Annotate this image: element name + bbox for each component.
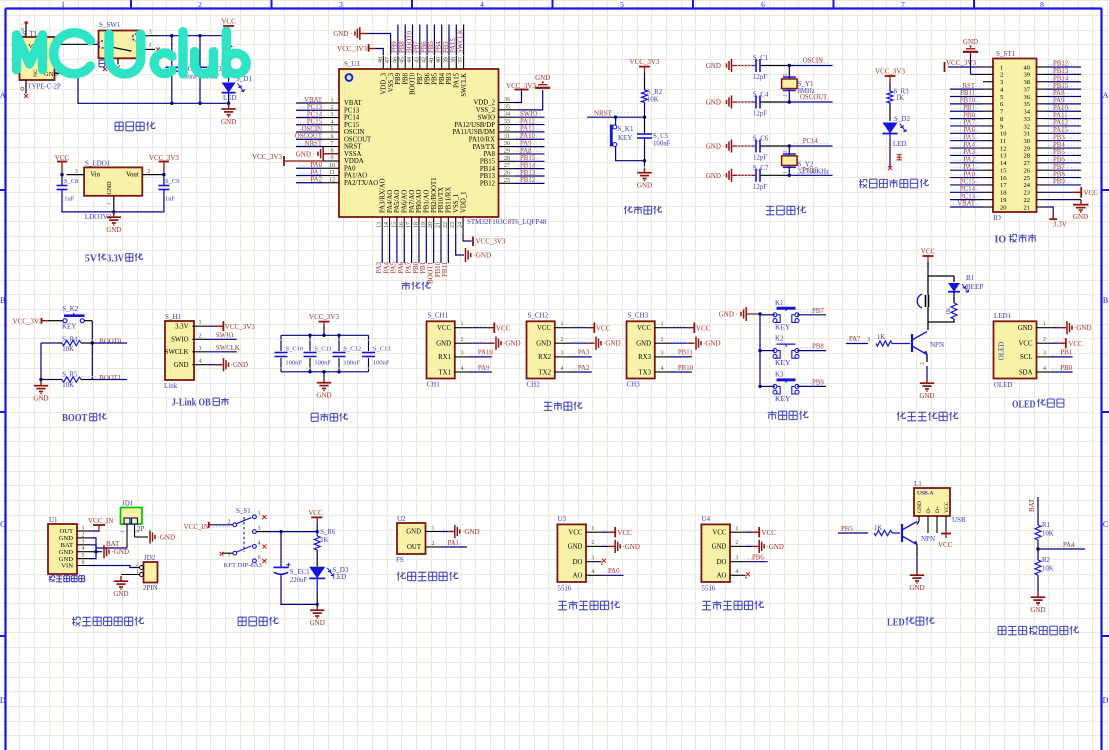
svg-text:PB7: PB7 (414, 41, 421, 53)
svg-text:AO: AO (573, 573, 583, 580)
svg-text:1K: 1K (946, 307, 952, 315)
svg-text:100nF: 100nF (653, 141, 671, 148)
svg-text:S_LDO1: S_LDO1 (85, 160, 111, 168)
svg-text:2: 2 (331, 105, 334, 111)
svg-text:GND: GND (406, 529, 421, 536)
svg-text:5: 5 (331, 127, 334, 133)
svg-text:PB11: PB11 (442, 262, 449, 277)
svg-text:8: 8 (1000, 116, 1003, 123)
svg-text:LED: LED (887, 617, 905, 629)
svg-text:D+: D+ (935, 506, 941, 513)
svg-text:VCC_3V3: VCC_3V3 (225, 323, 255, 331)
svg-text:13: 13 (1000, 153, 1007, 160)
svg-text:PA2/TX/AO: PA2/TX/AO (344, 180, 378, 187)
svg-text:0: 0 (21, 27, 24, 33)
svg-text:PA7: PA7 (405, 261, 412, 273)
svg-text:PB0: PB0 (1060, 365, 1072, 372)
svg-text:40: 40 (1024, 64, 1031, 71)
svg-text:16: 16 (1000, 175, 1007, 182)
svg-text:VDD_3: VDD_3 (381, 72, 388, 94)
svg-text:10K: 10K (62, 346, 74, 353)
svg-text:R1: R1 (1042, 522, 1050, 529)
svg-text:AO: AO (717, 573, 727, 580)
svg-text:2: 2 (1043, 337, 1046, 343)
svg-text:1K: 1K (877, 334, 885, 341)
svg-text:KEY: KEY (618, 134, 632, 142)
svg-text:48: 48 (378, 57, 384, 63)
svg-text:4: 4 (258, 541, 261, 547)
svg-text:S_D2: S_D2 (894, 115, 910, 123)
svg-text:3: 3 (1000, 79, 1003, 86)
svg-text:2: 2 (198, 0, 202, 9)
svg-text:2: 2 (461, 337, 464, 343)
svg-text:OSCIN: OSCIN (803, 58, 823, 65)
svg-text:2: 2 (135, 530, 141, 533)
svg-text:S_C12: S_C12 (343, 346, 361, 353)
svg-text:SDA: SDA (1019, 369, 1033, 376)
svg-text:PA10/RX: PA10/RX (469, 136, 495, 143)
svg-text:PA3: PA3 (578, 350, 590, 357)
svg-text:2: 2 (199, 333, 202, 339)
svg-text:VCC: VCC (308, 509, 323, 517)
svg-text:32.768KHz: 32.768KHz (798, 168, 830, 175)
svg-text:PA0: PA0 (608, 568, 620, 575)
svg-text:35: 35 (504, 104, 510, 110)
svg-text:PB13: PB13 (480, 173, 496, 180)
svg-text:6: 6 (258, 555, 261, 561)
svg-text:1: 1 (1000, 64, 1003, 71)
svg-text:·GND: ·GND (231, 361, 249, 369)
svg-text:IO: IO (995, 234, 1007, 246)
svg-text:BAT: BAT (106, 540, 120, 548)
svg-text:VCC: VCC (437, 325, 451, 332)
svg-text:PB4: PB4 (436, 41, 443, 53)
svg-text:VCC: VCC (1084, 189, 1099, 197)
svg-text:VCC: VCC (596, 324, 611, 332)
svg-text:OSCIN: OSCIN (302, 126, 322, 133)
svg-text:24: 24 (458, 222, 464, 228)
svg-text:VCC: VCC (938, 541, 953, 549)
svg-text:PC14: PC14 (344, 115, 360, 122)
svg-text:12pF: 12pF (753, 74, 767, 81)
svg-text:S_C9: S_C9 (165, 178, 179, 185)
svg-text:R2: R2 (1042, 557, 1051, 564)
svg-text:3.3V: 3.3V (175, 324, 188, 331)
svg-text:2: 2 (591, 540, 594, 546)
svg-text:1: 1 (107, 202, 113, 205)
svg-text:100nF: 100nF (285, 359, 302, 366)
svg-text:VCC: VCC (712, 529, 726, 536)
svg-text:1: 1 (591, 526, 594, 532)
svg-text:1: 1 (149, 43, 152, 49)
svg-text:S_CH1: S_CH1 (428, 312, 449, 320)
svg-text:KEY: KEY (775, 322, 791, 331)
svg-text:40: 40 (436, 57, 442, 63)
svg-text:3: 3 (1043, 351, 1046, 357)
svg-text:S_SW1: S_SW1 (99, 21, 121, 29)
svg-text:2: 2 (147, 169, 150, 175)
svg-text:3: 3 (75, 169, 78, 175)
svg-text:28: 28 (504, 156, 510, 162)
svg-text:12pF: 12pF (753, 184, 767, 191)
svg-text:31: 31 (1024, 131, 1031, 138)
svg-text:1: 1 (432, 525, 435, 531)
svg-text:PB11: PB11 (678, 350, 693, 357)
svg-text:S_K1: S_K1 (618, 125, 634, 133)
svg-text:A: A (1103, 91, 1109, 100)
svg-text:7: 7 (901, 0, 905, 9)
svg-text:2PIN: 2PIN (143, 584, 158, 592)
svg-text:BOOT: BOOT (62, 412, 88, 424)
svg-text:PA11/USB/DM: PA11/USB/DM (452, 129, 495, 136)
svg-text:VCC: VCC (637, 325, 651, 332)
svg-text:C: C (0, 520, 5, 529)
svg-text:VCC: VCC (761, 529, 776, 537)
svg-text:J-Link OB: J-Link OB (172, 397, 211, 409)
svg-text:TX1: TX1 (439, 369, 451, 376)
svg-text:B: B (1103, 296, 1108, 305)
svg-text:GND ·: GND · (296, 150, 315, 158)
svg-text:29: 29 (1024, 145, 1031, 152)
svg-text:RX1: RX1 (438, 354, 451, 361)
svg-text:12pF: 12pF (753, 155, 767, 162)
svg-text:10K: 10K (1042, 566, 1054, 573)
svg-text:PB10/TX: PB10/TX (438, 187, 445, 213)
svg-text:43: 43 (414, 57, 420, 63)
svg-text:GND: GND (1073, 213, 1088, 221)
svg-text:1: 1 (661, 322, 664, 328)
svg-text:GND: GND (107, 181, 113, 195)
svg-text:3: 3 (461, 351, 464, 357)
svg-text:1: 1 (61, 0, 65, 9)
svg-text:14: 14 (1000, 160, 1007, 167)
svg-text:SWCLK: SWCLK (461, 73, 468, 97)
svg-text:DO: DO (573, 559, 583, 566)
svg-text:2: 2 (661, 337, 664, 343)
svg-text:GND: GND (33, 395, 48, 403)
svg-text:7: 7 (331, 141, 334, 147)
svg-text:25: 25 (504, 178, 510, 184)
svg-text:K3: K3 (775, 370, 784, 378)
svg-text:21: 21 (1024, 204, 1031, 211)
svg-text:8MHz: 8MHz (798, 88, 815, 95)
svg-text:PA4: PA4 (1063, 542, 1075, 549)
svg-text:VCC_3V3: VCC_3V3 (946, 59, 976, 67)
svg-text:VCC: VCC (696, 324, 711, 332)
svg-text:PB10: PB10 (678, 365, 694, 372)
svg-text:S_K2: S_K2 (62, 305, 78, 313)
svg-text:PA1: PA1 (448, 540, 459, 547)
svg-text:GND: GND (568, 544, 583, 551)
svg-text:15: 15 (1000, 167, 1007, 174)
svg-text:S_EC1: S_EC1 (290, 568, 310, 576)
svg-text:·GND: ·GND (112, 548, 130, 556)
svg-text:10K: 10K (647, 97, 659, 104)
svg-text:PB5: PB5 (841, 526, 853, 533)
svg-text:U2: U2 (397, 515, 406, 523)
svg-text:PB3: PB3 (446, 72, 453, 84)
svg-text:RX2: RX2 (538, 354, 551, 361)
svg-text:3: 3 (149, 30, 152, 36)
svg-text:PA0: PA0 (344, 165, 356, 172)
svg-text:VSS_3: VSS_3 (388, 72, 395, 92)
svg-text:SWCLK: SWCLK (457, 29, 464, 53)
svg-text:PA12/USB/DP: PA12/USB/DP (454, 122, 495, 129)
svg-text:1: 1 (82, 526, 85, 532)
svg-text:S_R2: S_R2 (647, 89, 663, 96)
svg-text:1: 1 (735, 526, 738, 532)
svg-text:BOOT0: BOOT0 (406, 30, 413, 53)
svg-text:GND: GND (310, 619, 325, 627)
svg-text:SWIO: SWIO (478, 114, 495, 121)
svg-text:42: 42 (422, 57, 428, 63)
svg-text:VCC: VCC (1019, 341, 1033, 348)
svg-text:19: 19 (1000, 197, 1007, 204)
svg-text:27: 27 (1024, 160, 1031, 167)
svg-text:10K: 10K (62, 382, 74, 389)
svg-text:PA3/RX/AO: PA3/RX/AO (379, 178, 386, 213)
svg-text:KEY: KEY (62, 322, 76, 330)
svg-text:GND: GND (1030, 606, 1045, 614)
svg-text:3.3V: 3.3V (107, 253, 124, 265)
svg-text:PB10: PB10 (435, 261, 442, 277)
svg-text:GND: GND (436, 341, 451, 348)
svg-text:S_T1: S_T1 (22, 30, 38, 38)
svg-text:·GND: ·GND (622, 543, 640, 551)
svg-text:USB: USB (952, 516, 966, 524)
svg-text:PB5: PB5 (432, 72, 439, 84)
svg-text:5516: 5516 (557, 585, 572, 593)
svg-text:36: 36 (504, 97, 510, 103)
svg-text:6: 6 (331, 134, 334, 140)
svg-text:1: 1 (461, 322, 464, 328)
svg-text:44: 44 (407, 57, 413, 63)
svg-text:SWCLK: SWCLK (216, 345, 240, 352)
svg-text:LED: LED (333, 573, 347, 581)
svg-text:19: 19 (421, 222, 427, 228)
svg-text:IO: IO (993, 213, 1001, 222)
svg-text:K1: K1 (775, 299, 784, 307)
svg-text:4: 4 (561, 366, 564, 372)
svg-text:23: 23 (450, 222, 456, 228)
svg-text:VCC: VCC (568, 529, 582, 536)
svg-text:GND: GND (221, 118, 236, 126)
svg-text:24: 24 (1024, 182, 1031, 189)
svg-text:PA6: PA6 (398, 261, 405, 273)
svg-text:PC13: PC13 (344, 107, 360, 114)
svg-text:PA4/AO: PA4/AO (387, 190, 394, 213)
svg-text:2: 2 (1000, 72, 1003, 79)
svg-text:2: 2 (136, 562, 139, 568)
svg-text:PB14: PB14 (480, 166, 496, 173)
svg-text:1: 1 (258, 511, 261, 517)
svg-text:6: 6 (82, 560, 85, 566)
svg-text:PB0/AO: PB0/AO (416, 189, 423, 213)
svg-text:B1: B1 (966, 274, 975, 282)
svg-text:GND: GND (535, 74, 550, 82)
svg-text:PA8: PA8 (484, 151, 496, 158)
svg-text:PB8: PB8 (399, 41, 406, 53)
svg-text:OLED: OLED (998, 342, 1006, 361)
svg-text:36: 36 (1024, 94, 1031, 101)
svg-text:S_ST1: S_ST1 (996, 50, 1016, 58)
svg-text:4: 4 (199, 359, 202, 365)
svg-text:20: 20 (1000, 204, 1007, 211)
svg-text:6: 6 (761, 0, 765, 9)
svg-text:VCC_3V3: VCC_3V3 (309, 313, 339, 321)
svg-text:GND ·: GND · (333, 30, 352, 38)
svg-text:A: A (0, 91, 6, 100)
svg-text:22: 22 (443, 222, 449, 228)
svg-text:VCC_IN: VCC_IN (88, 517, 113, 525)
svg-text:PB1: PB1 (1060, 350, 1072, 357)
svg-text:VCC: VCC (221, 18, 236, 26)
svg-text:5V: 5V (85, 253, 97, 265)
svg-text:S_C13: S_C13 (373, 346, 391, 353)
svg-text:GND: GND (174, 362, 189, 369)
svg-text:BOOT1: BOOT1 (427, 262, 434, 284)
svg-text:U4: U4 (701, 515, 710, 523)
svg-text:S_R5: S_R5 (62, 372, 78, 379)
svg-text:S_C8: S_C8 (64, 178, 78, 185)
svg-text:1: 1 (120, 530, 126, 533)
svg-text:5: 5 (1000, 94, 1003, 101)
svg-text:·GND: ·GND (603, 340, 621, 348)
svg-text:NPN: NPN (921, 535, 935, 543)
svg-text:GND: GND (1018, 325, 1033, 332)
svg-text:PB9: PB9 (395, 72, 402, 84)
svg-text:32: 32 (504, 126, 510, 132)
svg-text:OSCOUT: OSCOUT (344, 136, 372, 143)
svg-text:37: 37 (1024, 86, 1031, 93)
svg-text:PB4: PB4 (439, 72, 446, 84)
svg-text:VCC_3V3: VCC_3V3 (476, 238, 506, 246)
svg-text:GND: GND (106, 226, 121, 234)
svg-text:1K: 1K (320, 537, 328, 544)
svg-text:LED: LED (223, 94, 237, 102)
svg-text:20: 20 (428, 222, 434, 228)
svg-text:CH1: CH1 (427, 380, 441, 388)
svg-text:4: 4 (461, 366, 464, 372)
svg-text:VBAT: VBAT (344, 100, 363, 107)
svg-text:3: 3 (199, 346, 202, 352)
svg-text:PA4: PA4 (383, 261, 390, 273)
svg-text:47: 47 (385, 57, 391, 63)
svg-text:·GND: ·GND (766, 543, 784, 551)
svg-text:VSSA: VSSA (344, 151, 361, 158)
svg-text:PB8: PB8 (402, 72, 409, 84)
svg-text:28: 28 (1024, 153, 1031, 160)
svg-text:GND: GND (637, 182, 652, 190)
svg-text:12pF: 12pF (753, 111, 767, 118)
svg-text:2: 2 (228, 519, 231, 525)
svg-text:4: 4 (735, 569, 738, 575)
svg-text:GND: GND (909, 584, 924, 592)
svg-text:PB2/BOOT1: PB2/BOOT1 (431, 177, 438, 213)
svg-text:1uF: 1uF (64, 195, 75, 202)
svg-text:VDD_1: VDD_1 (460, 191, 467, 213)
svg-text:4: 4 (82, 546, 85, 552)
svg-text:USB-A: USB-A (917, 491, 934, 497)
svg-text:3: 3 (82, 539, 85, 545)
svg-text:34: 34 (1024, 109, 1031, 116)
svg-text:STM32F103C8T6_LQFP48: STM32F103C8T6_LQFP48 (467, 218, 547, 226)
svg-text:22: 22 (1024, 197, 1031, 204)
svg-text:VCC_3V3: VCC_3V3 (252, 153, 282, 161)
svg-text:JD1: JD1 (122, 500, 134, 508)
svg-text:PB12: PB12 (480, 181, 496, 188)
svg-text:10: 10 (1000, 131, 1007, 138)
svg-text:CH3: CH3 (627, 380, 641, 388)
svg-text:B: B (0, 296, 5, 305)
svg-text:5: 5 (82, 553, 85, 559)
svg-text:OLED: OLED (1012, 398, 1036, 410)
svg-text:PA15: PA15 (450, 38, 457, 53)
svg-text:9: 9 (1000, 123, 1003, 130)
svg-text:VCC_3V3: VCC_3V3 (337, 45, 367, 53)
svg-text:5516: 5516 (701, 585, 716, 593)
svg-text:JD2: JD2 (144, 554, 156, 562)
svg-text:S_H1: S_H1 (165, 313, 181, 321)
svg-text:·GND: ·GND (462, 528, 480, 536)
svg-text:GND: GND (919, 392, 934, 400)
svg-text:BOOT1: BOOT1 (99, 375, 121, 382)
svg-text:VCC: VCC (537, 325, 551, 332)
svg-text:3: 3 (339, 0, 343, 9)
svg-text:39: 39 (444, 57, 450, 63)
svg-text:U1: U1 (49, 516, 58, 524)
svg-text:30: 30 (1024, 138, 1031, 145)
svg-text:18: 18 (1000, 190, 1007, 197)
svg-text:34: 34 (504, 112, 510, 118)
svg-text:S_CH2: S_CH2 (528, 312, 549, 320)
svg-text:PA7: PA7 (849, 336, 861, 343)
svg-text:GND ·: GND · (719, 311, 738, 319)
svg-text:PA1/AO: PA1/AO (344, 173, 367, 180)
svg-text:12: 12 (1000, 145, 1007, 152)
svg-text:1: 1 (331, 98, 334, 104)
svg-text:4: 4 (480, 0, 484, 9)
svg-text:3: 3 (661, 351, 664, 357)
svg-text:LED: LED (893, 140, 907, 148)
svg-text:·GND: ·GND (1074, 324, 1092, 332)
svg-text:41: 41 (429, 57, 435, 63)
svg-text:KFT DIP-8A3: KFT DIP-8A3 (224, 562, 263, 569)
svg-text:5: 5 (620, 0, 624, 9)
svg-text:S_Y2: S_Y2 (798, 160, 814, 168)
svg-text:18: 18 (413, 222, 419, 228)
svg-text:PB6: PB6 (752, 555, 764, 562)
svg-text:BOOT0: BOOT0 (410, 72, 417, 95)
svg-text:3: 3 (735, 556, 738, 562)
svg-text:K2: K2 (775, 335, 784, 343)
svg-text:GND: GND (636, 341, 651, 348)
svg-text:2: 2 (82, 532, 85, 538)
svg-text:100nF: 100nF (373, 359, 390, 366)
svg-text:KEY: KEY (775, 358, 791, 367)
svg-text:VCC: VCC (496, 324, 511, 332)
svg-text:D: D (0, 696, 6, 705)
svg-text:GND: GND (963, 38, 978, 46)
svg-text:10: 10 (329, 163, 335, 169)
svg-text:PA7/AO: PA7/AO (409, 190, 416, 213)
svg-text:TYPE-C-2P: TYPE-C-2P (28, 84, 61, 91)
svg-text:D-: D- (926, 507, 932, 513)
svg-text:VCC_3V3: VCC_3V3 (875, 68, 905, 76)
svg-text:2: 2 (432, 541, 435, 547)
svg-text:15: 15 (391, 222, 397, 228)
svg-text:4: 4 (1043, 366, 1046, 372)
